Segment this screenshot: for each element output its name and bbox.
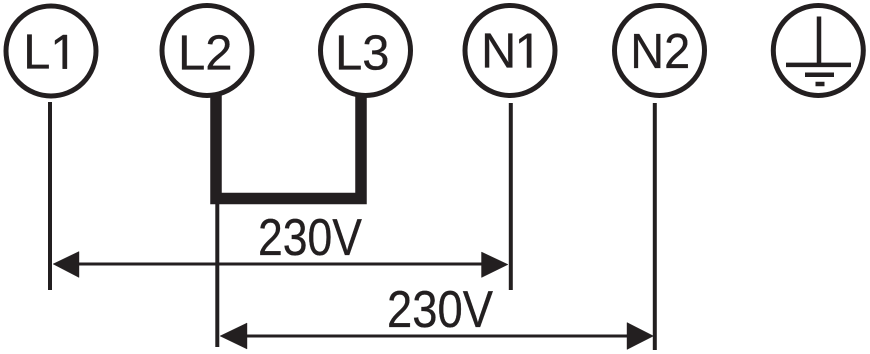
svg-text:L: L: [23, 26, 50, 80]
svg-text:230V: 230V: [258, 209, 362, 267]
svg-text:L3: L3: [335, 27, 390, 81]
svg-text:N2: N2: [630, 25, 690, 79]
svg-text:L2: L2: [178, 27, 233, 81]
svg-text:N: N: [481, 25, 516, 79]
svg-text:230V: 230V: [387, 281, 493, 339]
